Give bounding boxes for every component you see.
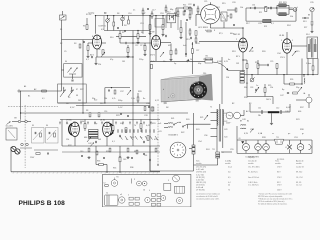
svg-text:C30: C30 bbox=[252, 5, 255, 7]
svg-text:150p: 150p bbox=[203, 59, 207, 61]
svg-text:8p: 8p bbox=[186, 61, 188, 63]
svg-text:C20: C20 bbox=[176, 16, 179, 18]
svg-text:170 V: 170 V bbox=[150, 55, 156, 57]
svg-text:S2: S2 bbox=[60, 43, 62, 45]
svg-text:C17: C17 bbox=[152, 10, 156, 12]
svg-text:S1: S1 bbox=[60, 29, 62, 31]
svg-text:C42: C42 bbox=[88, 143, 92, 145]
svg-text:110: 110 bbox=[226, 77, 229, 79]
svg-text:R33: R33 bbox=[97, 161, 100, 163]
svg-text:C56: C56 bbox=[204, 135, 207, 137]
svg-text:8: 8 bbox=[214, 30, 215, 32]
svg-text:B3: B3 bbox=[249, 103, 251, 105]
svg-text:C32: C32 bbox=[250, 51, 254, 53]
svg-text:C33: C33 bbox=[250, 87, 253, 89]
svg-text:R23: R23 bbox=[264, 26, 267, 28]
svg-text:68p: 68p bbox=[170, 9, 173, 11]
svg-text:C52: C52 bbox=[250, 129, 254, 131]
svg-text:C47: C47 bbox=[280, 95, 284, 97]
svg-text:R29: R29 bbox=[116, 115, 120, 117]
svg-text:2n: 2n bbox=[133, 10, 135, 12]
svg-text:S11: S11 bbox=[174, 13, 177, 15]
svg-text:UY 85 (V6): UY 85 (V6) bbox=[196, 190, 205, 192]
svg-text:50k: 50k bbox=[290, 16, 293, 18]
svg-text:R32: R32 bbox=[68, 145, 72, 147]
svg-text:S13: S13 bbox=[303, 21, 306, 23]
svg-text:CORRIENTES: CORRIENTES bbox=[245, 157, 259, 159]
svg-text:S15: S15 bbox=[296, 51, 299, 53]
svg-text:6k8: 6k8 bbox=[210, 59, 213, 61]
svg-text:UL 84: UL 84 bbox=[100, 120, 106, 122]
svg-text:C38: C38 bbox=[146, 103, 150, 105]
svg-text:A1: A1 bbox=[24, 85, 26, 88]
svg-text:Ia 3,2 mA: Ia 3,2 mA bbox=[196, 173, 204, 176]
svg-text:170 V: 170 V bbox=[280, 57, 286, 59]
svg-text:680: 680 bbox=[84, 137, 87, 139]
svg-text:R27: R27 bbox=[80, 89, 84, 91]
svg-text:30p: 30p bbox=[92, 98, 95, 100]
svg-text:1,4 V: 1,4 V bbox=[118, 107, 123, 109]
svg-text:S7: S7 bbox=[76, 89, 78, 91]
svg-text:220V~: 220V~ bbox=[226, 123, 231, 125]
svg-text:T21: T21 bbox=[212, 149, 215, 151]
svg-text:1n: 1n bbox=[256, 85, 258, 87]
svg-text:200 V: 200 V bbox=[266, 99, 272, 101]
svg-text:S8: S8 bbox=[117, 13, 119, 15]
svg-text:110-245V: 110-245V bbox=[6, 126, 14, 128]
svg-text:S23: S23 bbox=[196, 129, 199, 131]
svg-text:L1: L1 bbox=[285, 147, 287, 149]
svg-text:0,1: 0,1 bbox=[271, 23, 274, 25]
svg-text:Ia 6,8 mA: Ia 6,8 mA bbox=[196, 178, 204, 181]
svg-text:C8: C8 bbox=[98, 49, 100, 51]
svg-text:C5: C5 bbox=[64, 51, 66, 53]
svg-text:R17: R17 bbox=[246, 23, 250, 25]
svg-text:C35: C35 bbox=[310, 2, 314, 4]
svg-text:8: 8 bbox=[92, 36, 93, 38]
svg-text:44: 44 bbox=[228, 184, 230, 186]
svg-text:m2: m2 bbox=[120, 194, 122, 196]
svg-text:F.I. 452 Kc/s: F.I. 452 Kc/s bbox=[248, 172, 258, 174]
svg-text:R37: R37 bbox=[300, 107, 304, 109]
svg-text:S18: S18 bbox=[100, 103, 103, 105]
svg-text:0,1: 0,1 bbox=[42, 98, 45, 100]
svg-text:T2: T2 bbox=[210, 107, 212, 109]
svg-text:3: 3 bbox=[150, 36, 151, 38]
svg-text:UL 84: UL 84 bbox=[279, 35, 285, 37]
svg-text:1n5: 1n5 bbox=[158, 123, 161, 125]
svg-text:R31: R31 bbox=[152, 123, 156, 125]
svg-text:R22: R22 bbox=[279, 2, 282, 4]
svg-text:Ia 8,5 mA: Ia 8,5 mA bbox=[196, 168, 204, 171]
svg-text:R23: R23 bbox=[283, 2, 287, 4]
svg-text:medida: medida bbox=[296, 163, 302, 165]
svg-text:sc: sc bbox=[272, 133, 274, 135]
svg-text:medida: medida bbox=[275, 163, 281, 165]
svg-text:R28: R28 bbox=[138, 91, 142, 93]
svg-text:Ajuste de: Ajuste de bbox=[296, 160, 304, 163]
svg-text:0,22: 0,22 bbox=[155, 100, 159, 102]
svg-text:R5: R5 bbox=[122, 32, 124, 34]
svg-text:R2: R2 bbox=[104, 13, 106, 15]
svg-text:P: P bbox=[134, 179, 135, 181]
svg-text:0,9: 0,9 bbox=[101, 29, 104, 31]
svg-text:R1: R1 bbox=[117, 177, 119, 179]
svg-text:0,5-2: 0,5-2 bbox=[228, 167, 232, 169]
svg-text:R15: R15 bbox=[222, 3, 226, 5]
svg-text:230: 230 bbox=[203, 73, 206, 75]
svg-text:kc/s: kc/s bbox=[183, 45, 186, 47]
svg-text:UCH 81: UCH 81 bbox=[99, 26, 107, 28]
svg-text:S8: S8 bbox=[76, 95, 78, 97]
svg-text:C11: C11 bbox=[258, 108, 261, 110]
svg-text:C22: C22 bbox=[188, 4, 192, 6]
svg-text:S10: S10 bbox=[110, 37, 113, 39]
svg-text:C27: C27 bbox=[196, 50, 199, 52]
svg-text:29: 29 bbox=[222, 152, 224, 154]
svg-text:5n: 5n bbox=[126, 139, 128, 141]
svg-text:B2: B2 bbox=[232, 103, 234, 105]
svg-text:C39: C39 bbox=[144, 115, 148, 117]
svg-text:C26: C26 bbox=[232, 2, 236, 4]
svg-text:75: 75 bbox=[228, 190, 230, 192]
svg-text:4,7k: 4,7k bbox=[112, 98, 115, 100]
svg-text:S24: S24 bbox=[224, 137, 227, 139]
svg-text:1M: 1M bbox=[122, 61, 125, 63]
svg-text:R14: R14 bbox=[183, 5, 186, 7]
svg-text:B6: B6 bbox=[206, 56, 208, 58]
svg-text:O.L. 160 Kc/s: O.L. 160 Kc/s bbox=[248, 184, 259, 186]
svg-text:C49: C49 bbox=[242, 119, 246, 121]
svg-text:1,5k: 1,5k bbox=[131, 98, 135, 100]
svg-text:R36: R36 bbox=[130, 167, 133, 169]
svg-text:220p: 220p bbox=[139, 59, 143, 61]
svg-text:C6: C6 bbox=[70, 91, 72, 93]
svg-text:0,5M: 0,5M bbox=[217, 61, 222, 63]
svg-text:C28: C28 bbox=[258, 23, 262, 25]
svg-text:C6, C14: C6, C14 bbox=[296, 177, 302, 179]
svg-text:C29: C29 bbox=[270, 61, 273, 63]
svg-text:Gen. 470 Kc/s: Gen. 470 Kc/s bbox=[248, 177, 259, 179]
svg-text:S12: S12 bbox=[167, 11, 170, 13]
svg-text:2M: 2M bbox=[78, 100, 81, 102]
svg-text:S6: S6 bbox=[46, 125, 48, 127]
svg-text:medida: medida bbox=[196, 163, 202, 165]
svg-text:R18: R18 bbox=[255, 62, 258, 64]
svg-text:12k: 12k bbox=[66, 139, 69, 141]
svg-text:0,1: 0,1 bbox=[112, 141, 115, 143]
svg-text:m3: m3 bbox=[143, 190, 145, 192]
svg-text:2: 2 bbox=[236, 39, 237, 41]
svg-text:C48: C48 bbox=[285, 111, 289, 113]
svg-text:452: 452 bbox=[168, 45, 171, 47]
svg-text:R20: R20 bbox=[262, 51, 266, 53]
svg-text:87,5: 87,5 bbox=[219, 33, 223, 35]
svg-text:470k: 470k bbox=[154, 139, 158, 141]
svg-text:1k: 1k bbox=[190, 59, 192, 61]
svg-text:nucleo S2: nucleo S2 bbox=[296, 167, 304, 169]
svg-text:C10: C10 bbox=[128, 13, 132, 15]
svg-text:S3: S3 bbox=[74, 43, 76, 45]
svg-text:10k: 10k bbox=[240, 7, 243, 9]
svg-text:1W: 1W bbox=[236, 63, 239, 65]
svg-text:C12: C12 bbox=[135, 45, 138, 47]
svg-text:0,047: 0,047 bbox=[286, 107, 291, 109]
svg-text:SK2: SK2 bbox=[181, 132, 184, 134]
svg-text:R3: R3 bbox=[83, 26, 85, 28]
svg-text:5p: 5p bbox=[174, 63, 176, 65]
svg-text:40p: 40p bbox=[198, 63, 201, 65]
svg-text:100k: 100k bbox=[80, 121, 84, 123]
svg-text:Ia (mA): Ia (mA) bbox=[225, 160, 231, 163]
svg-text:C25: C25 bbox=[204, 1, 207, 3]
svg-text:4n: 4n bbox=[228, 59, 230, 61]
svg-text:R39: R39 bbox=[262, 137, 266, 139]
svg-text:medida: medida bbox=[248, 163, 254, 165]
svg-text:C3 25p: C3 25p bbox=[88, 13, 94, 15]
svg-text:600: 600 bbox=[298, 111, 301, 113]
svg-text:medida: medida bbox=[225, 163, 231, 165]
svg-text:B4: B4 bbox=[247, 121, 249, 123]
svg-text:UCC: UCC bbox=[216, 7, 221, 9]
svg-text:2,2k: 2,2k bbox=[151, 61, 155, 63]
svg-text:S20: S20 bbox=[186, 119, 189, 121]
svg-text:C44: C44 bbox=[144, 155, 147, 157]
svg-text:1: 1 bbox=[292, 40, 293, 42]
svg-text:500p: 500p bbox=[118, 100, 122, 102]
svg-text:R35: R35 bbox=[113, 168, 116, 170]
svg-text:7k: 7k bbox=[134, 125, 136, 127]
svg-text:A2: A2 bbox=[34, 88, 36, 91]
svg-text:B1: B1 bbox=[28, 96, 30, 98]
svg-text:R8: R8 bbox=[86, 110, 88, 112]
svg-text:22k: 22k bbox=[98, 64, 101, 66]
svg-text:SK1: SK1 bbox=[171, 118, 174, 120]
svg-text:pu: pu bbox=[288, 133, 290, 135]
svg-text:6,5: 6,5 bbox=[228, 177, 230, 179]
svg-text:3-6: 3-6 bbox=[228, 172, 231, 174]
svg-text:50: 50 bbox=[68, 97, 70, 99]
svg-text:Osc. 87,5 Mc/s: Osc. 87,5 Mc/s bbox=[248, 167, 260, 169]
svg-text:C55: C55 bbox=[230, 149, 234, 151]
svg-text:UY 85: UY 85 bbox=[66, 120, 72, 122]
svg-text:47p: 47p bbox=[110, 59, 113, 61]
svg-text:0,1: 0,1 bbox=[86, 59, 89, 61]
svg-text:S17: S17 bbox=[66, 103, 69, 105]
svg-text:5: 5 bbox=[281, 40, 282, 42]
svg-text:R36: R36 bbox=[244, 97, 248, 99]
svg-text:9: 9 bbox=[245, 39, 246, 41]
svg-text:R26: R26 bbox=[290, 79, 293, 81]
svg-text:Ia 44 mA: Ia 44 mA bbox=[196, 186, 204, 189]
svg-text:C18: C18 bbox=[160, 13, 164, 15]
svg-text:S14: S14 bbox=[306, 34, 309, 36]
svg-text:0,47: 0,47 bbox=[146, 125, 150, 127]
svg-text:UCC 85: UCC 85 bbox=[198, 27, 206, 29]
svg-text:C43: C43 bbox=[123, 159, 126, 161]
svg-text:R13: R13 bbox=[186, 39, 190, 41]
svg-text:C6: C6 bbox=[239, 138, 241, 140]
svg-text:0,25: 0,25 bbox=[224, 61, 228, 63]
svg-text:3k3: 3k3 bbox=[98, 139, 101, 141]
svg-text:S23: S23 bbox=[224, 129, 227, 131]
svg-text:15k: 15k bbox=[270, 87, 273, 89]
svg-text:R27: R27 bbox=[304, 27, 307, 29]
svg-text:0,1A: 0,1A bbox=[258, 132, 263, 135]
svg-text:6,3 V: 6,3 V bbox=[70, 107, 75, 109]
svg-text:B104 AM 6: B104 AM 6 bbox=[169, 134, 178, 137]
svg-text:S5: S5 bbox=[32, 125, 34, 127]
svg-text:6,3V: 6,3V bbox=[244, 133, 249, 135]
svg-text:8n: 8n bbox=[143, 98, 145, 100]
svg-text:S9, S12: S9, S12 bbox=[296, 172, 302, 174]
svg-text:R19: R19 bbox=[232, 51, 236, 53]
svg-text:C12: C12 bbox=[276, 108, 279, 110]
svg-text:7: 7 bbox=[162, 36, 163, 38]
svg-text:5 ohm: 5 ohm bbox=[306, 63, 312, 65]
svg-text:S4: S4 bbox=[65, 61, 67, 63]
svg-text:18k: 18k bbox=[104, 98, 107, 100]
svg-text:b: b bbox=[163, 89, 164, 91]
svg-text:UBC 81: UBC 81 bbox=[233, 34, 241, 36]
svg-text:3n: 3n bbox=[66, 123, 68, 125]
svg-text:C37: C37 bbox=[120, 91, 124, 93]
svg-text:R21: R21 bbox=[259, 12, 262, 14]
svg-text:Circuito de: Circuito de bbox=[248, 160, 257, 163]
svg-text:S23: S23 bbox=[296, 119, 299, 121]
svg-text:S21: S21 bbox=[200, 117, 203, 119]
svg-text:Los valores pueden variar ±10%: Los valores pueden variar ±10%. bbox=[196, 199, 220, 201]
svg-text:S25: S25 bbox=[131, 137, 134, 139]
svg-text:C41: C41 bbox=[158, 131, 162, 133]
svg-text:R38: R38 bbox=[300, 129, 304, 131]
svg-text:C53: C53 bbox=[294, 137, 298, 139]
svg-text:Mc/s: Mc/s bbox=[230, 33, 234, 35]
svg-text:B8: B8 bbox=[308, 15, 310, 17]
svg-text:C2, C4: C2, C4 bbox=[296, 184, 301, 186]
svg-text:m1: m1 bbox=[106, 193, 108, 195]
svg-text:S13: S13 bbox=[205, 27, 208, 29]
svg-text:T21: T21 bbox=[276, 137, 279, 139]
svg-text:PHILIPS B 108: PHILIPS B 108 bbox=[19, 200, 66, 207]
svg-text:C2: C2 bbox=[104, 183, 106, 185]
svg-text:C16: C16 bbox=[104, 111, 107, 113]
svg-text:330: 330 bbox=[244, 87, 247, 89]
svg-text:R41: R41 bbox=[216, 155, 220, 157]
svg-text:6: 6 bbox=[100, 36, 101, 38]
svg-text:10n: 10n bbox=[163, 61, 166, 63]
